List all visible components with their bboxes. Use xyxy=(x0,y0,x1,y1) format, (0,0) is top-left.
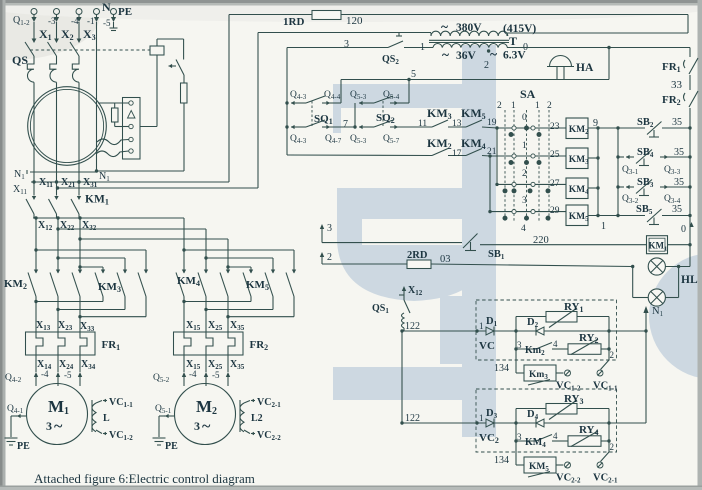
svg-text:5: 5 xyxy=(411,69,416,80)
svg-text:PE: PE xyxy=(17,441,30,452)
svg-text:T: T xyxy=(509,34,517,48)
svg-text:3: 3 xyxy=(344,39,349,50)
svg-text:4: 4 xyxy=(553,339,558,349)
svg-text:3: 3 xyxy=(522,196,527,206)
svg-text:0: 0 xyxy=(681,224,686,235)
svg-text:PE: PE xyxy=(118,6,132,18)
svg-text:380V: 380V xyxy=(456,22,482,34)
svg-text:134: 134 xyxy=(494,363,509,374)
svg-text:~: ~ xyxy=(202,418,211,435)
svg-text:122: 122 xyxy=(405,413,420,424)
svg-text:13: 13 xyxy=(452,119,462,129)
svg-text:25: 25 xyxy=(550,150,560,160)
svg-text:2: 2 xyxy=(610,350,615,360)
svg-text:19: 19 xyxy=(487,118,497,128)
svg-text:35: 35 xyxy=(672,204,682,215)
svg-text:HL: HL xyxy=(681,274,698,286)
svg-text:-5: -5 xyxy=(64,370,72,380)
svg-text:35: 35 xyxy=(674,147,684,158)
svg-text:~: ~ xyxy=(441,19,448,34)
svg-text:2: 2 xyxy=(484,60,489,71)
svg-text:2: 2 xyxy=(522,169,527,179)
svg-text:QS: QS xyxy=(12,53,28,67)
svg-text:L2: L2 xyxy=(251,413,263,424)
svg-text:~: ~ xyxy=(442,47,449,62)
svg-text:HA: HA xyxy=(576,62,594,74)
svg-text:-1: -1 xyxy=(87,16,95,26)
svg-text:35: 35 xyxy=(674,177,684,188)
svg-text:1: 1 xyxy=(601,221,606,232)
svg-text:220: 220 xyxy=(533,235,549,246)
svg-text:1: 1 xyxy=(479,413,484,423)
svg-text:-5: -5 xyxy=(212,370,220,380)
svg-text:7: 7 xyxy=(343,119,348,130)
svg-text:1: 1 xyxy=(522,141,527,151)
svg-text:PE: PE xyxy=(165,441,178,452)
svg-text:1RD: 1RD xyxy=(283,16,304,28)
svg-text:-5: -5 xyxy=(103,18,111,28)
svg-text:2: 2 xyxy=(327,252,332,263)
svg-text:29: 29 xyxy=(550,206,560,216)
svg-text:L: L xyxy=(103,413,110,424)
svg-text:9: 9 xyxy=(593,118,598,129)
svg-text:VC: VC xyxy=(479,340,495,352)
svg-text:27: 27 xyxy=(550,179,560,189)
svg-text:36V: 36V xyxy=(456,50,477,62)
svg-text:-4: -4 xyxy=(71,16,79,26)
svg-text:122: 122 xyxy=(405,321,420,332)
svg-text:2: 2 xyxy=(547,101,552,111)
svg-text:17: 17 xyxy=(452,149,462,159)
svg-text:3: 3 xyxy=(517,340,522,350)
svg-text:120: 120 xyxy=(346,15,363,27)
svg-text:(415V): (415V) xyxy=(503,23,536,35)
svg-text:3: 3 xyxy=(327,223,332,234)
svg-text:-4: -4 xyxy=(41,369,49,379)
svg-text:SA: SA xyxy=(520,87,536,101)
svg-text:134: 134 xyxy=(494,455,509,466)
svg-text:1: 1 xyxy=(535,101,540,111)
svg-text:33: 33 xyxy=(671,79,683,91)
svg-text:3: 3 xyxy=(517,432,522,442)
svg-text:1: 1 xyxy=(420,42,425,53)
svg-text:35: 35 xyxy=(672,117,682,128)
svg-text:2: 2 xyxy=(497,101,502,111)
svg-text:11: 11 xyxy=(418,119,427,129)
svg-text:-4: -4 xyxy=(189,369,197,379)
svg-text:Attached figure 6:Electric con: Attached figure 6:Electric control diagr… xyxy=(34,471,255,486)
svg-text:2RD: 2RD xyxy=(407,250,428,261)
svg-text:N: N xyxy=(102,0,111,14)
svg-text:1: 1 xyxy=(479,321,484,331)
svg-text:4: 4 xyxy=(521,224,526,234)
svg-text:~: ~ xyxy=(490,47,497,62)
svg-text:~: ~ xyxy=(54,418,63,435)
svg-text:3: 3 xyxy=(194,419,200,433)
svg-text:2: 2 xyxy=(610,442,615,452)
svg-text:03: 03 xyxy=(440,254,451,265)
svg-text:-3: -3 xyxy=(48,16,56,26)
svg-text:4: 4 xyxy=(553,431,558,441)
svg-text:3: 3 xyxy=(46,419,52,433)
svg-text:1: 1 xyxy=(511,101,516,111)
svg-text:23: 23 xyxy=(550,122,560,132)
